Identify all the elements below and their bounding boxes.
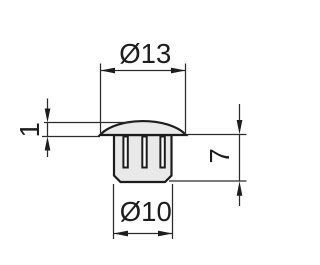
dimension O13: left arrowhead [101,68,116,74]
slot 1 [123,137,127,168]
dimension 1: upper leader with down arrowhead [47,99,49,112]
svg-text:Ø13: Ø13 [119,38,171,69]
slot 3 [160,137,164,168]
dimension 7: connecting line between reference lines [239,135,241,182]
dimension 1: connecting line between reference lines [47,123,49,137]
dimension O13: dimension line [101,70,186,72]
dimension 7: reference line bottom (shaft bottom level) [169,180,247,182]
dome cap [100,121,186,135]
dimension 7: reference line top (rim level) [187,134,247,136]
dimension O13: right arrowhead [171,68,186,74]
dimension O10: right arrowhead [158,231,173,237]
dimension 1: reference line top (dome apex level) [44,122,131,124]
plug body (shaft with chamfered bottom corners) [114,135,172,182]
dimension 1: reference line bottom (rim level) [42,136,100,138]
dimension 7: lower leader with up arrowhead [237,181,243,196]
dimension O10: extension line right [172,184,174,239]
dimension O10: extension line left [113,184,115,239]
dimension 1: lower leader with up arrowhead [45,137,51,151]
dimension O10: left arrowhead [114,231,129,237]
dimension O10: dimension line [114,233,173,235]
svg-text:1: 1 [14,122,45,137]
dimension O13: extension line right [185,64,187,134]
svg-text:7: 7 [204,148,235,163]
slot 2 [142,137,146,168]
dimension 7: upper leader with down arrowhead [239,104,241,121]
dimension O13: extension line left [100,64,102,134]
svg-text:Ø10: Ø10 [120,196,172,227]
